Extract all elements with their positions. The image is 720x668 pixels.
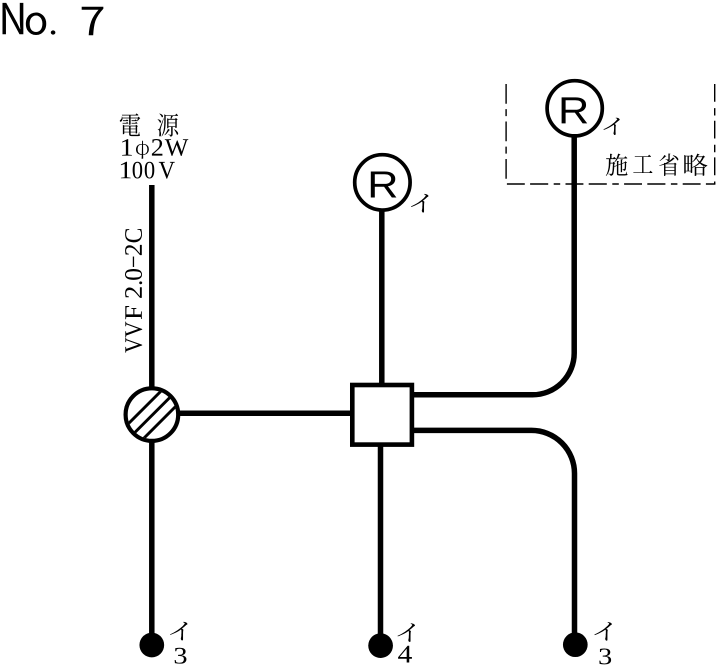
- label イ 3 (right): [594, 622, 611, 664]
- title No. 7: [2, 3, 103, 35]
- label イ (middle receptacle): [411, 194, 428, 213]
- outlet box: [352, 385, 412, 445]
- wire: outlet box down to lamp outlet イ4: [378, 414, 384, 646]
- wire: joint box to outlet box: [152, 410, 382, 416]
- construction-omitted boundary box: [505, 84, 507, 184]
- lamp outlet イ3 left: [139, 633, 164, 658]
- power source label 電源: [120, 113, 178, 136]
- VVF joint box: [115, 377, 190, 452]
- lamp receptacle R (construction omitted): [547, 81, 602, 136]
- label イ (omitted receptacle): [603, 118, 619, 135]
- wire: outlet box to lamp outlet イ3 right (curved): [414, 430, 575, 644]
- value label 100V: [121, 162, 175, 179]
- cable label VVF 2.0-2C: [125, 229, 142, 353]
- lamp receptacle R (middle): [355, 155, 410, 210]
- value label 1φ2W: [122, 139, 188, 159]
- lamp outlet イ4 middle: [368, 633, 393, 658]
- label 施工省略: [606, 154, 708, 176]
- lamp outlet イ3 right: [563, 632, 588, 657]
- wire: source drop through joint box to lamp outlet イ3 left: [149, 185, 155, 645]
- label イ 3 (left): [170, 622, 187, 664]
- wire: outlet box to omitted receptacle R イ (curved): [414, 108, 574, 395]
- wire: outlet box up to receptacle R イ: [379, 182, 385, 414]
- label イ 4 (middle): [397, 623, 414, 662]
